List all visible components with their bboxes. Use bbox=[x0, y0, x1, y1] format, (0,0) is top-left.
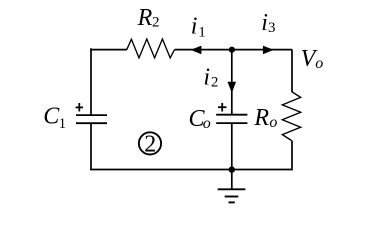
resistor R2 bbox=[127, 39, 175, 58]
svg-text:2: 2 bbox=[152, 15, 160, 31]
label C1 bbox=[43, 104, 66, 132]
label i1 bbox=[191, 14, 206, 41]
current arrow i3 bbox=[263, 46, 274, 55]
label i3 bbox=[261, 10, 275, 36]
capacitor C1 bbox=[76, 115, 107, 123]
wire: left branch upper (top corner down to C1) bbox=[90, 50, 92, 115]
resistor Ro bbox=[282, 92, 300, 141]
current arrow i2 bbox=[228, 82, 237, 93]
node 2 label (circled 2) bbox=[139, 131, 161, 157]
wire: right branch upper (top corner down to Ro) bbox=[291, 50, 293, 92]
ground bbox=[218, 189, 246, 202]
plus sign of C1 bbox=[76, 103, 83, 111]
svg-text:i: i bbox=[191, 14, 198, 40]
svg-text:2: 2 bbox=[144, 131, 156, 157]
capacitor Co bbox=[216, 115, 247, 123]
label Ro bbox=[253, 105, 277, 131]
node junction dot (top, node between R2, Co, Ro) bbox=[229, 47, 235, 53]
label Vo bbox=[301, 46, 324, 72]
wire: right branch lower (Ro down to bottom-right corner) bbox=[291, 141, 292, 170]
wire: left branch lower (C1 down to bottom-left corner) bbox=[90, 123, 92, 170]
svg-text:i: i bbox=[261, 10, 268, 36]
svg-text:o: o bbox=[315, 55, 323, 72]
svg-text:i: i bbox=[203, 64, 210, 90]
label i2 bbox=[203, 64, 218, 90]
wire: bottom wire bbox=[90, 169, 292, 171]
wire: middle branch lower (Co down to bottom wire) bbox=[231, 123, 233, 169]
svg-text:1: 1 bbox=[198, 24, 206, 40]
svg-text:o: o bbox=[203, 115, 211, 132]
svg-text:R: R bbox=[137, 5, 153, 31]
wire: top wire from R2 to right corner bbox=[175, 49, 293, 51]
wire: middle branch upper (junction down to Co) bbox=[231, 50, 233, 115]
svg-text:o: o bbox=[269, 114, 277, 131]
svg-text:R: R bbox=[253, 105, 269, 131]
label Co bbox=[189, 106, 211, 132]
label R2 bbox=[137, 5, 160, 31]
plus sign of Co bbox=[218, 103, 227, 112]
current arrow i1 bbox=[191, 46, 202, 55]
svg-text:1: 1 bbox=[59, 116, 67, 132]
svg-text:3: 3 bbox=[268, 20, 276, 36]
wire: ground stub bbox=[231, 170, 233, 189]
wire: top-left segment from left corner to R2 bbox=[91, 48, 127, 49]
svg-text:2: 2 bbox=[211, 75, 219, 91]
node junction dot (bottom, ground node) bbox=[229, 166, 235, 172]
